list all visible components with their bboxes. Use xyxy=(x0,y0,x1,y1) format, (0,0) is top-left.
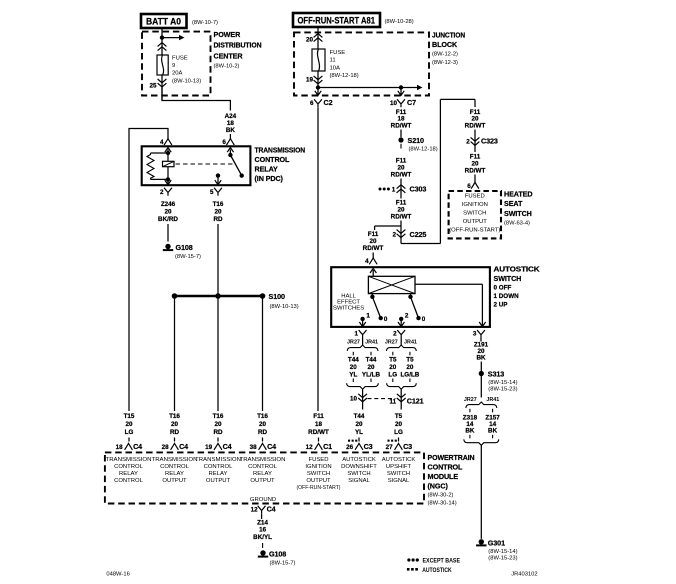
splice S313 xyxy=(479,371,484,376)
heated seat pin 6 connector xyxy=(474,175,476,183)
svg-text:LG/LB: LG/LB xyxy=(400,372,419,379)
fuse F9 20A xyxy=(157,55,168,75)
wire T15 relay control xyxy=(167,129,169,140)
svg-text:6: 6 xyxy=(467,183,471,190)
wire pin 6 entry arrow xyxy=(229,150,231,156)
svg-text:A24: A24 xyxy=(225,113,237,120)
svg-text:(8W-10-13): (8W-10-13) xyxy=(172,79,201,85)
relay pin 2 connector xyxy=(164,188,172,196)
svg-text:11: 11 xyxy=(390,398,397,405)
svg-text:EXCEPT BASE: EXCEPT BASE xyxy=(423,557,461,564)
connector chevrons pin 19 xyxy=(317,71,319,88)
svg-text:LG: LG xyxy=(125,429,134,436)
switch 2 blade xyxy=(410,294,412,297)
PCM pin 38 C4 transmission control relay output c xyxy=(259,443,267,449)
svg-text:SEAT: SEAT xyxy=(504,199,523,208)
wire to fuse 9 xyxy=(161,38,163,55)
svg-text:T44: T44 xyxy=(348,357,359,364)
svg-text:SWITCH: SWITCH xyxy=(494,274,522,283)
svg-text:10: 10 xyxy=(390,100,398,107)
svg-text:Z246: Z246 xyxy=(161,201,176,208)
svg-text:048W-16: 048W-16 xyxy=(106,572,129,578)
autostick pin 3 connector xyxy=(477,330,485,338)
svg-text:20: 20 xyxy=(397,207,405,214)
svg-text:4: 4 xyxy=(365,258,369,265)
svg-text:POWERTRAIN: POWERTRAIN xyxy=(428,453,475,462)
svg-text:OUTPUT: OUTPUT xyxy=(162,478,187,484)
svg-text:IGNITION: IGNITION xyxy=(462,202,488,208)
svg-text:20A: 20A xyxy=(172,71,183,77)
svg-text:RELAY: RELAY xyxy=(165,471,184,477)
svg-text:(8W-12-18): (8W-12-18) xyxy=(409,146,438,152)
wire pin 1 down xyxy=(362,338,364,345)
PCM pin 12 C1 fused ignition switch output xyxy=(315,443,323,449)
svg-text:RD/WT: RD/WT xyxy=(363,245,384,252)
svg-text:20: 20 xyxy=(471,161,479,168)
svg-text:RD: RD xyxy=(213,216,223,223)
wire exit arrow to C7 xyxy=(400,88,402,95)
svg-text:SWITCH: SWITCH xyxy=(504,209,532,218)
svg-text:2: 2 xyxy=(405,313,409,320)
svg-text:BK/RD: BK/RD xyxy=(158,216,178,223)
svg-text:C4: C4 xyxy=(267,442,276,451)
wire terminal 1 exit arrow xyxy=(362,319,364,326)
svg-text:JR27: JR27 xyxy=(385,340,398,346)
svg-text:YL: YL xyxy=(355,429,363,436)
svg-text:25: 25 xyxy=(149,83,157,90)
svg-text:20: 20 xyxy=(350,364,358,371)
svg-text:S313: S313 xyxy=(488,370,504,379)
svg-text:F11: F11 xyxy=(396,200,407,207)
wire to S313 xyxy=(480,362,482,372)
svg-text:FUSE: FUSE xyxy=(172,56,188,62)
svg-text:(8W-63-4): (8W-63-4) xyxy=(504,221,530,227)
svg-text:YL: YL xyxy=(349,372,357,379)
svg-text:OUTPUT: OUTPUT xyxy=(250,478,275,484)
svg-text:S100: S100 xyxy=(269,292,285,301)
svg-text:RELAY: RELAY xyxy=(209,471,228,477)
svg-text:FUSED: FUSED xyxy=(465,194,485,200)
svg-text:C2: C2 xyxy=(324,98,333,107)
svg-text:AUTOSTICK: AUTOSTICK xyxy=(342,457,376,463)
wire A81 into junction block xyxy=(317,27,319,49)
svg-text:BK: BK xyxy=(488,428,498,435)
svg-text:(NGC): (NGC) xyxy=(428,482,449,491)
svg-text:9: 9 xyxy=(172,63,175,69)
svg-text:MODULE: MODULE xyxy=(428,472,459,481)
svg-text:20: 20 xyxy=(395,421,403,428)
svg-text:T5: T5 xyxy=(406,357,414,364)
wire to C303 xyxy=(400,179,402,199)
svg-text:CENTER: CENTER xyxy=(214,51,244,60)
svg-text:20: 20 xyxy=(355,421,363,428)
svg-text:BK/YL: BK/YL xyxy=(253,534,272,541)
svg-text:(8W-15-14): (8W-15-14) xyxy=(488,380,517,386)
connector chevrons pin 20 xyxy=(314,34,323,38)
wire pin 5 exit arrow xyxy=(217,176,219,184)
wire pin 2 down xyxy=(400,338,402,345)
svg-text:4: 4 xyxy=(160,139,164,146)
svg-text:F11: F11 xyxy=(368,231,379,238)
powertrain control module dashed box xyxy=(105,452,424,503)
node S100 dot left xyxy=(172,293,178,299)
wire to relay pin 6 xyxy=(229,134,231,139)
svg-text:RELAY: RELAY xyxy=(255,164,279,173)
svg-text:CONTROL: CONTROL xyxy=(255,155,291,164)
wire pin 4 entry arrow xyxy=(167,150,169,154)
svg-text:2: 2 xyxy=(393,331,397,338)
svg-text:(OFF-RUN-START): (OFF-RUN-START) xyxy=(297,485,341,491)
svg-text:UPSHIFT: UPSHIFT xyxy=(386,464,412,470)
svg-text:20: 20 xyxy=(389,364,397,371)
svg-text:19: 19 xyxy=(205,444,213,451)
autostick pin 2 connector xyxy=(397,330,405,338)
relay pin 6 connector xyxy=(227,139,235,145)
wire label Z14 16 BK/YL xyxy=(261,514,263,519)
svg-text:3: 3 xyxy=(473,331,477,338)
svg-text:SWITCHES: SWITCHES xyxy=(333,306,364,312)
svg-text:CONTROL: CONTROL xyxy=(428,463,464,472)
svg-text:27: 27 xyxy=(386,444,394,451)
svg-text:(8W-12-2): (8W-12-2) xyxy=(432,52,458,58)
svg-text:DOWNSHIFT: DOWNSHIFT xyxy=(341,464,377,470)
svg-text:19: 19 xyxy=(306,77,314,84)
ground G108 relay xyxy=(165,244,170,249)
svg-text:1: 1 xyxy=(392,186,396,193)
node junction bus dot right xyxy=(399,85,403,89)
hall effect sensor crossed box xyxy=(368,276,415,293)
wire below fuse 9 xyxy=(161,75,163,101)
ground G108 PCM xyxy=(260,550,265,555)
svg-text:RD/WT: RD/WT xyxy=(391,172,412,179)
svg-text:20: 20 xyxy=(214,209,222,216)
svg-text:C1: C1 xyxy=(323,442,332,451)
svg-text:HEATED: HEATED xyxy=(504,189,532,198)
svg-text:20: 20 xyxy=(367,364,375,371)
svg-text:JR41: JR41 xyxy=(365,340,378,346)
wire hall box to pin 3 xyxy=(415,283,482,285)
svg-text:C4: C4 xyxy=(133,442,142,451)
svg-text:SIGNAL: SIGNAL xyxy=(348,478,370,484)
resistor relay coil xyxy=(147,153,154,179)
svg-text:TRANSMISSION: TRANSMISSION xyxy=(195,457,241,463)
wire Z246 to ground xyxy=(167,224,169,242)
svg-text:(8W-10-7): (8W-10-7) xyxy=(192,20,218,26)
wire T16 output b xyxy=(217,296,219,411)
svg-text:28: 28 xyxy=(162,444,170,451)
PCM pin 26 C3 autostick downshift switch signal xyxy=(348,440,350,442)
svg-text:(8W-15-7): (8W-15-7) xyxy=(270,561,296,567)
svg-text:1 DOWN: 1 DOWN xyxy=(494,293,520,300)
svg-text:20: 20 xyxy=(171,421,179,428)
svg-text:1: 1 xyxy=(354,331,358,338)
svg-text:JR41: JR41 xyxy=(486,397,499,403)
svg-text:20: 20 xyxy=(259,421,267,428)
svg-text:20: 20 xyxy=(214,421,222,428)
harness combine pin2 xyxy=(387,383,417,389)
wire arrow feed right xyxy=(162,37,180,39)
svg-text:TRANSMISSION: TRANSMISSION xyxy=(152,457,198,463)
ground G301 xyxy=(479,539,484,544)
svg-text:T16: T16 xyxy=(169,413,180,420)
svg-text:20: 20 xyxy=(397,165,405,172)
svg-text:S210: S210 xyxy=(408,136,424,145)
svg-text:C303: C303 xyxy=(410,185,427,194)
node junction dot in PDC xyxy=(160,35,164,39)
svg-text:T5: T5 xyxy=(395,413,403,420)
svg-text:FUSED: FUSED xyxy=(309,457,329,463)
wire BATT A0 to junction dot xyxy=(161,28,163,38)
svg-text:(8W-15-7): (8W-15-7) xyxy=(175,254,201,260)
svg-text:OUTPUT: OUTPUT xyxy=(463,219,488,225)
svg-text:CONTROL: CONTROL xyxy=(204,464,234,470)
svg-text:RELAY: RELAY xyxy=(253,471,272,477)
svg-text:AUTOSTICK: AUTOSTICK xyxy=(382,457,416,463)
switch 1 blade xyxy=(371,294,373,297)
node relay coil top xyxy=(166,151,170,155)
transmission control relay box xyxy=(142,146,251,185)
svg-text:5: 5 xyxy=(210,189,214,196)
svg-text:2: 2 xyxy=(160,189,164,196)
svg-text:RD/WT: RD/WT xyxy=(465,168,486,175)
svg-text:T44: T44 xyxy=(354,413,365,420)
connector C225 pin 2 xyxy=(397,234,406,238)
svg-text:(8W-12-3): (8W-12-3) xyxy=(432,60,458,66)
node terminal 2 xyxy=(399,317,403,321)
svg-text:RD: RD xyxy=(170,429,180,436)
svg-text:(8W-10-13): (8W-10-13) xyxy=(270,304,299,310)
svg-text:C323: C323 xyxy=(481,137,498,146)
svg-text:2 UP: 2 UP xyxy=(494,302,508,309)
svg-text:RD/WT: RD/WT xyxy=(391,123,412,130)
wire to C225 with branch xyxy=(400,221,402,244)
relay pin 4 connector xyxy=(164,139,172,145)
wire bus across junction block xyxy=(318,87,401,89)
svg-text:RD/WT: RD/WT xyxy=(391,214,412,221)
svg-text:G108: G108 xyxy=(269,550,286,559)
relay coil branch wires xyxy=(167,153,169,179)
autostick pin 4 connector xyxy=(372,253,374,259)
svg-text:C7: C7 xyxy=(407,98,416,107)
svg-text:BK: BK xyxy=(476,355,486,362)
svg-text:CONTROL: CONTROL xyxy=(160,464,190,470)
svg-text:JUNCTION: JUNCTION xyxy=(432,31,465,40)
svg-text:(8W-10-28): (8W-10-28) xyxy=(385,19,414,25)
svg-text:(OFF-RUN-START): (OFF-RUN-START) xyxy=(449,228,500,234)
svg-text:JR27: JR27 xyxy=(464,397,477,403)
svg-text:20: 20 xyxy=(125,421,133,428)
marker except-base dots xyxy=(379,188,382,191)
svg-text:DISTRIBUTION: DISTRIBUTION xyxy=(214,41,262,50)
PCM pin 27 C3 autostick upshift switch signal xyxy=(388,440,390,442)
svg-text:0: 0 xyxy=(384,316,388,323)
svg-text:AUTOSTICK: AUTOSTICK xyxy=(422,567,452,574)
svg-text:CONTROL: CONTROL xyxy=(114,464,144,470)
relay pin 5 connector xyxy=(214,188,222,196)
node relay coil bottom xyxy=(166,177,170,181)
junction block dashed box xyxy=(294,32,429,95)
svg-text:12: 12 xyxy=(251,507,259,514)
svg-text:(8W-30-14): (8W-30-14) xyxy=(428,501,457,507)
svg-text:20: 20 xyxy=(164,209,172,216)
PCM pin 18 C4 transmission control relay control xyxy=(125,443,133,449)
svg-text:Z14: Z14 xyxy=(257,520,268,527)
svg-text:SIGNAL: SIGNAL xyxy=(388,478,410,484)
legend except base xyxy=(407,558,410,561)
svg-text:(8W-10-2): (8W-10-2) xyxy=(214,63,240,69)
svg-text:10A: 10A xyxy=(330,65,341,71)
svg-text:SWITCH: SWITCH xyxy=(347,471,370,477)
svg-text:20: 20 xyxy=(306,37,314,44)
wire C7 to S210 xyxy=(400,130,402,138)
svg-text:20: 20 xyxy=(406,364,414,371)
svg-text:G301: G301 xyxy=(488,538,505,547)
svg-text:OUTPUT: OUTPUT xyxy=(206,478,231,484)
connector C2 pin 6 xyxy=(314,99,322,107)
svg-text:POWER: POWER xyxy=(214,30,242,39)
svg-text:2: 2 xyxy=(466,139,470,146)
svg-text:RD/WT: RD/WT xyxy=(308,429,329,436)
svg-text:(8W-15-23): (8W-15-23) xyxy=(488,556,517,562)
svg-text:C121: C121 xyxy=(407,396,424,405)
svg-text:RD: RD xyxy=(213,429,223,436)
heated seat switch dashed box xyxy=(449,191,501,238)
wire heated seat feeder loop xyxy=(401,243,440,245)
svg-text:LG: LG xyxy=(394,429,403,436)
svg-text:0: 0 xyxy=(422,316,426,323)
svg-text:0 OFF: 0 OFF xyxy=(494,285,512,292)
connector C121 pin 11 xyxy=(397,398,406,402)
svg-text:1: 1 xyxy=(366,313,370,320)
svg-text:BK: BK xyxy=(226,127,236,134)
svg-text:JR403102: JR403102 xyxy=(511,572,537,578)
svg-text:18: 18 xyxy=(315,421,323,428)
connector chevrons into fuse 9 xyxy=(158,43,167,47)
svg-text:RD/WT: RD/WT xyxy=(465,123,486,130)
svg-text:18: 18 xyxy=(227,120,235,127)
node terminal 1 xyxy=(360,317,364,321)
wire T16 output a xyxy=(174,296,176,411)
node S100 dot middle xyxy=(215,293,221,299)
svg-text:YL/LB: YL/LB xyxy=(362,372,381,379)
wire fuse 9 to relay pin 6 xyxy=(161,87,163,101)
svg-text:RELAY: RELAY xyxy=(119,471,138,477)
wire pin1 to PCM pin 26 xyxy=(358,438,360,442)
svg-text:(8W-12-18): (8W-12-18) xyxy=(330,73,359,79)
svg-text:GROUND: GROUND xyxy=(250,497,276,503)
svg-text:T16: T16 xyxy=(257,413,268,420)
svg-text:CONTROL: CONTROL xyxy=(114,478,144,484)
svg-text:C3: C3 xyxy=(403,442,412,451)
svg-text:JR41: JR41 xyxy=(404,340,417,346)
harness combine pin1 xyxy=(347,383,379,389)
relay switch blade xyxy=(230,155,241,176)
svg-text:C4: C4 xyxy=(179,442,188,451)
svg-text:JR27: JR27 xyxy=(347,340,360,346)
svg-text:TRANSMISSION: TRANSMISSION xyxy=(106,457,152,463)
svg-text:F11: F11 xyxy=(470,154,481,161)
svg-text:(8W-15-23): (8W-15-23) xyxy=(488,387,517,393)
wire T16 output c xyxy=(262,296,264,411)
svg-text:SWITCH: SWITCH xyxy=(463,211,486,217)
svg-text:OFF-RUN-START A81: OFF-RUN-START A81 xyxy=(298,16,376,27)
svg-text:11: 11 xyxy=(330,58,336,64)
node relay pin 5 contact xyxy=(216,173,220,177)
wire exit arrow to C2 xyxy=(317,88,319,95)
wire to G301 xyxy=(480,445,482,539)
wire dashed connector line xyxy=(368,398,396,400)
node junction bus dot left xyxy=(316,85,320,89)
svg-text:FUSE: FUSE xyxy=(330,50,346,56)
wire branch to autostick xyxy=(375,225,401,227)
svg-text:C4: C4 xyxy=(267,505,276,514)
svg-text:C3: C3 xyxy=(364,442,373,451)
svg-text:TRANSMISSION: TRANSMISSION xyxy=(255,145,306,154)
node OFF-RUN-START A81 feed box xyxy=(293,13,380,27)
PCM pin 28 C4 transmission control relay output a xyxy=(171,443,179,449)
svg-text:RD: RD xyxy=(258,429,268,436)
svg-text:12: 12 xyxy=(306,444,314,451)
legend autostick xyxy=(407,568,410,571)
svg-text:AUTOSTICK: AUTOSTICK xyxy=(494,265,541,274)
svg-text:OUTPUT: OUTPUT xyxy=(306,478,331,484)
svg-text:C225: C225 xyxy=(410,230,427,239)
svg-text:6: 6 xyxy=(222,139,226,146)
splice S210 xyxy=(398,137,403,142)
svg-text:6: 6 xyxy=(310,100,314,107)
connector C7 pin 10 xyxy=(397,99,405,107)
autostick pin 1 connector xyxy=(359,330,367,338)
wire pin 2 exit arrow xyxy=(167,179,169,183)
svg-text:IGNITION: IGNITION xyxy=(305,464,331,470)
svg-text:2: 2 xyxy=(392,232,396,239)
svg-text:LG: LG xyxy=(388,372,397,379)
wire pin 3 down Z191 xyxy=(480,338,482,342)
wire terminal 2 exit arrow xyxy=(400,319,402,326)
wire dashed mechanical link xyxy=(176,163,233,165)
node BATT A0 feed box xyxy=(141,14,187,28)
svg-text:10: 10 xyxy=(350,396,358,403)
svg-text:(IN PDC): (IN PDC) xyxy=(255,174,284,183)
svg-text:26: 26 xyxy=(346,444,354,451)
wire relay pin5 to S100 xyxy=(217,224,219,296)
svg-text:18: 18 xyxy=(116,444,124,451)
svg-text:(8W-30-2): (8W-30-2) xyxy=(428,493,454,499)
svg-text:T16: T16 xyxy=(213,413,224,420)
node S100 dot xyxy=(260,293,266,299)
wire pin 4 entry arrow xyxy=(372,270,374,276)
svg-text:T44: T44 xyxy=(366,357,377,364)
connector chevrons pin 25 xyxy=(158,83,167,87)
PCM pin 19 C4 transmission control relay output b xyxy=(214,443,222,449)
fuse F11 10A xyxy=(312,49,325,71)
svg-text:SWITCH: SWITCH xyxy=(387,471,410,477)
autostick switch box xyxy=(331,267,490,327)
svg-text:CONTROL: CONTROL xyxy=(248,464,278,470)
svg-text:20: 20 xyxy=(369,238,377,245)
wire F11 ignition feed C2 xyxy=(317,107,319,411)
svg-text:F11: F11 xyxy=(313,413,324,420)
wire pin2 to PCM pin 27 xyxy=(398,438,400,442)
wire to C323 xyxy=(474,130,476,153)
node relay common xyxy=(228,153,232,157)
svg-text:TRANSMISSION: TRANSMISSION xyxy=(240,457,286,463)
svg-text:20: 20 xyxy=(471,116,479,123)
svg-text:G108: G108 xyxy=(176,243,193,252)
svg-text:C4: C4 xyxy=(223,442,232,451)
power distribution center dashed box xyxy=(142,32,211,96)
wire below S313 xyxy=(480,376,482,398)
